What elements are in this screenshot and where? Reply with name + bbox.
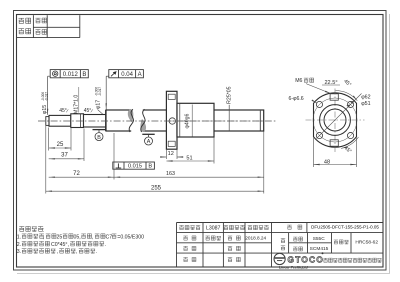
svg-text:,: , xyxy=(92,234,93,240)
note line 1 xyxy=(17,234,144,241)
svg-text:B: B xyxy=(148,164,152,170)
dimension 37 xyxy=(49,129,84,162)
break S-curve left with shaded lens xyxy=(128,109,134,132)
label 6-φ6.6 with leader xyxy=(289,96,318,104)
left end stub (center hole recess) xyxy=(46,117,49,126)
cell 日期 row3 xyxy=(228,246,232,250)
svg-text:GTOCO: GTOCO xyxy=(288,256,325,265)
cell 审核 xyxy=(183,246,187,250)
label φ17 with tolerance (rotated) and leader xyxy=(95,87,103,114)
dimension 48 across flats xyxy=(314,138,357,167)
logo tagline xyxy=(279,265,308,269)
cell 螺母 xyxy=(293,247,297,251)
svg-text:HRC58-62: HRC58-62 xyxy=(355,239,378,245)
svg-text:=0.05/E300: =0.05/E300 xyxy=(117,234,144,240)
svg-text:φ51: φ51 xyxy=(361,101,370,107)
company logo emblem xyxy=(274,253,285,264)
φ62/φ51 diagonal leader xyxy=(317,94,362,139)
dimension 25 xyxy=(49,128,71,151)
shaft journal φ17 xyxy=(84,115,107,128)
datum B symbol on φ17 journal xyxy=(93,130,106,141)
nut pilot circle xyxy=(320,105,351,136)
customer confirmation table xyxy=(17,15,80,37)
svg-text:2018.8.24: 2018.8.24 xyxy=(245,236,266,241)
svg-text:45°: 45° xyxy=(59,108,67,114)
bolt circle φ51 xyxy=(313,98,357,142)
svg-text:12: 12 xyxy=(168,151,174,157)
svg-text:φ62: φ62 xyxy=(361,95,370,101)
svg-text:φ17: φ17 xyxy=(96,100,102,109)
svg-text:25: 25 xyxy=(57,142,64,148)
chamfer callout 45 deg right xyxy=(84,108,93,114)
svg-text:37: 37 xyxy=(61,153,68,159)
svg-text:51: 51 xyxy=(186,155,192,161)
label M6 oil hole with leader xyxy=(295,78,331,94)
cell 客户编号 xyxy=(179,225,183,229)
bolt hole upper-right xyxy=(347,101,353,107)
label 客户确认 xyxy=(19,18,31,34)
cell 螺杆 xyxy=(293,237,297,241)
svg-text:φ15: φ15 xyxy=(42,105,48,114)
phi40 extension line in nut xyxy=(191,105,193,137)
screw bore circle xyxy=(324,109,346,131)
grease hole on flange (side view) xyxy=(169,118,175,124)
svg-text:255: 255 xyxy=(151,185,162,191)
svg-text:S55C: S55C xyxy=(313,236,326,242)
svg-text:A: A xyxy=(147,139,151,145)
svg-text:,: , xyxy=(76,249,77,255)
svg-text:05,: 05, xyxy=(74,234,81,240)
dimension 255 (overall) xyxy=(46,126,264,194)
svg-text:45°: 45° xyxy=(84,108,92,114)
note line 2 xyxy=(17,241,106,248)
label R25*05 (rotated) with leader xyxy=(227,86,233,131)
FCF concentricity 0.012 B with leader xyxy=(48,70,89,115)
title block grid xyxy=(177,223,384,268)
technical notes heading 技术要求: xyxy=(19,226,44,233)
svg-text:0.015: 0.015 xyxy=(128,164,142,170)
cell 工艺 xyxy=(183,257,187,261)
svg-text:C7: C7 xyxy=(106,234,113,240)
svg-text:.: . xyxy=(105,242,106,248)
label 22.5deg xyxy=(322,80,340,86)
bolt hole lower-left xyxy=(316,132,322,138)
svg-text:-0.017: -0.017 xyxy=(45,92,49,101)
chamfer callout 45 deg left xyxy=(59,108,68,114)
svg-text:Linear Feeltk,Ltd: Linear Feeltk,Ltd xyxy=(279,265,308,269)
svg-text:25: 25 xyxy=(57,234,63,240)
label 日期 xyxy=(35,18,46,23)
svg-text:,: , xyxy=(57,249,58,255)
svg-text:SCM415: SCM415 xyxy=(310,246,329,252)
svg-text:72: 72 xyxy=(73,171,80,177)
cell 木工机械 xyxy=(248,225,252,229)
company name 东莞海高传动机械有限公司 xyxy=(323,258,327,262)
nut counterbore line xyxy=(179,103,181,137)
cell 绘图 xyxy=(183,236,187,240)
break S-curve right with shaded lens xyxy=(141,109,146,132)
dimension 12 (flange width) xyxy=(161,150,183,159)
bolt hole upper-left xyxy=(316,101,322,107)
svg-text:B: B xyxy=(82,72,86,78)
svg-text:DFU2505-DFCT-155-255-P1-0.05: DFU2505-DFCT-155-255-P1-0.05 xyxy=(311,224,379,229)
svg-text:2.: 2. xyxy=(17,242,21,248)
svg-text:A: A xyxy=(138,72,142,78)
svg-text:0.04: 0.04 xyxy=(121,72,133,78)
nut centerline continuation xyxy=(168,120,262,122)
FCF circular runout 0.04 A with leader xyxy=(106,70,143,110)
oil hole slot top xyxy=(330,94,338,100)
break gap cover xyxy=(131,109,143,133)
FCF perpendicularity 0.015 B with leader xyxy=(113,162,155,170)
end view vertical centerline xyxy=(334,89,336,153)
shaft centerline xyxy=(38,120,276,122)
label φ15 with tolerance (rotated) xyxy=(41,92,48,114)
bolt hole lower-right xyxy=(347,132,353,138)
oil hole slot bottom xyxy=(330,140,338,146)
svg-text:163: 163 xyxy=(166,171,175,177)
svg-text:R25*05: R25*05 xyxy=(227,86,233,103)
flange bolt hole bottom (section) xyxy=(168,141,175,146)
datum A symbol on screw body xyxy=(142,134,154,145)
svg-text:,: , xyxy=(43,234,44,240)
cell 热处理 xyxy=(334,240,338,244)
M17 extension line xyxy=(78,87,80,113)
end view flange outline (circle with flats) xyxy=(314,93,357,147)
thread section M17x1.0 xyxy=(71,114,84,128)
label 签名 xyxy=(35,29,46,34)
svg-text:6-φ6.6: 6-φ6.6 xyxy=(289,96,304,102)
end view horizontal centerline xyxy=(306,119,365,121)
cell 黄华珍 xyxy=(205,236,209,240)
paper edge shadow right xyxy=(389,14,391,274)
cell 材料 (stacked) xyxy=(281,238,285,242)
svg-text:-0.017: -0.017 xyxy=(98,87,102,96)
svg-text:.: . xyxy=(96,249,97,255)
cell 型号 xyxy=(287,225,291,229)
cell 日期 row2 xyxy=(228,236,232,240)
leader arrowheads on diagonal xyxy=(346,104,350,107)
dimension 51 (nut with flange) xyxy=(166,138,214,164)
svg-text:0.012: 0.012 xyxy=(63,72,79,78)
svg-text:C0*45°,: C0*45°, xyxy=(51,242,69,248)
nut flange plate xyxy=(166,91,177,149)
note line 3 xyxy=(17,249,97,256)
svg-text:M6: M6 xyxy=(295,78,302,84)
svg-text:3.: 3. xyxy=(17,249,21,255)
thread start extension mark xyxy=(105,110,107,131)
angle arc 45 bottom with label xyxy=(341,137,359,148)
svg-text:1.: 1. xyxy=(17,234,21,240)
chain dimension 72 + 163 xyxy=(49,132,264,194)
svg-text:L3087: L3087 xyxy=(206,225,221,231)
shaft journal φ15 xyxy=(49,115,71,126)
svg-text:M17*1.0: M17*1.0 xyxy=(74,95,80,114)
svg-text:B: B xyxy=(97,135,101,141)
cell 行业类别 xyxy=(224,225,228,229)
angle arc 22.5 and 45 top xyxy=(336,91,358,101)
flange bolt hole top (section) xyxy=(168,94,175,99)
screw body φ25 (left visible part) xyxy=(106,110,264,131)
svg-text:48: 48 xyxy=(324,159,330,165)
logo registered dot xyxy=(322,252,324,254)
screw right end chamfer line xyxy=(259,111,261,131)
cell 日期 row4 xyxy=(228,257,232,261)
nut body xyxy=(177,103,214,137)
paper edge shadow bottom xyxy=(17,273,390,275)
